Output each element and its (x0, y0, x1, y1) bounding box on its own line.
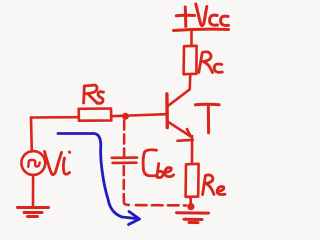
capacitor Cbe dashed lead top (123, 121, 126, 157)
transistor T collector lead (168, 90, 190, 107)
transistor T base bar (165, 94, 169, 128)
label T (196, 104, 220, 133)
ground (Vi) (18, 206, 49, 209)
wire Rc to collector (188, 74, 191, 90)
capacitor Cbe dashed lead bottom (123, 166, 126, 198)
source Vi circle (21, 151, 45, 175)
label Re (203, 175, 225, 195)
transistor T emitter lead with arrow (168, 122, 191, 137)
resistor Rs (79, 109, 112, 121)
capacitor Cbe plates (112, 156, 137, 159)
node emitter junction dot (187, 203, 194, 210)
label Rc (199, 52, 223, 73)
ground (Re) (177, 211, 209, 214)
label +Vcc (174, 4, 229, 31)
resistor Re (186, 164, 199, 197)
base wire (111, 114, 166, 116)
node junction dot (122, 113, 129, 120)
source Vi sine symbol (28, 160, 39, 167)
wire left vertical to Vi (30, 118, 33, 152)
wire Rs to base (31, 116, 79, 119)
wire Vcc to Rc (190, 32, 193, 47)
dashed wire to emitter node (136, 204, 186, 207)
label Rs (84, 85, 104, 104)
wire Re to ground (189, 197, 192, 209)
emitter wire (191, 136, 194, 164)
annotation blue arrow (58, 134, 140, 225)
label Vi (45, 152, 70, 175)
resistor Rc (184, 46, 197, 74)
label Cbe (143, 150, 173, 178)
dashed corner segment (124, 197, 129, 205)
wire Vi to ground (32, 175, 35, 206)
